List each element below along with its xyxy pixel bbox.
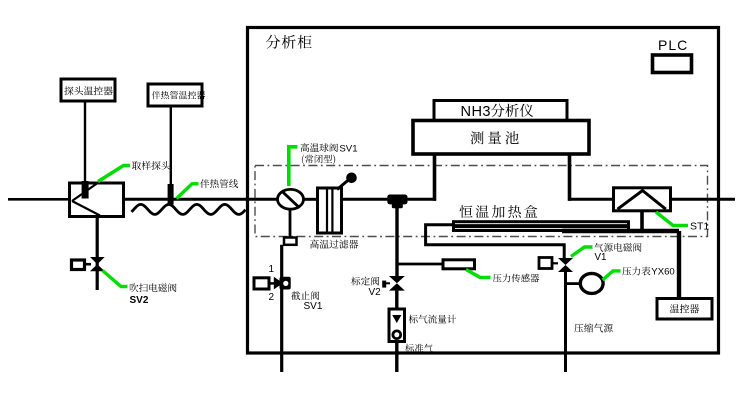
wire: probe controller to probe — [84, 101, 86, 183]
temperature controller box 温控器 — [657, 299, 712, 320]
label 温控器 — [670, 304, 699, 313]
wire: left leg up to measuring cell — [433, 153, 437, 201]
wire: tee to measuring cell left leg — [408, 198, 437, 201]
wire: pipe from heater to valve V1 — [426, 225, 565, 259]
V1 solenoid coil — [539, 258, 552, 269]
svg-text:YX60: YX60 — [651, 267, 674, 278]
analysis cabinet enclosure — [248, 28, 719, 354]
label 压力表 — [622, 267, 650, 276]
valve V2 (calibration valve) — [389, 276, 405, 291]
label 高温过滤器 — [310, 240, 358, 249]
wire: cabinet wall to ball valve — [248, 198, 279, 201]
wire: tee to pressure sensor — [397, 263, 444, 266]
measuring cell box 测量池 — [413, 121, 589, 155]
V2 stem handle — [385, 282, 390, 284]
SV2 solenoid coil — [72, 260, 85, 270]
callout 伴热管线 — [177, 184, 199, 199]
valve SV2 (purge solenoid valve) — [90, 257, 105, 271]
svg-text:NH3: NH3 — [461, 104, 491, 120]
ST1 sample cooler box — [614, 188, 671, 211]
wire: down through shutoff valve to bottom — [280, 245, 283, 372]
heater element of constant-temp heating box — [454, 222, 629, 231]
label 截止阀 — [291, 291, 319, 300]
wire: trace-heating controller down to heated line — [170, 106, 172, 188]
heated sample line (wavy) — [132, 204, 246, 214]
PLC box — [653, 55, 692, 73]
shutoff valve 截止阀 SV1 (3-way) — [274, 277, 283, 290]
wire: main sample line from flue (left) — [8, 198, 70, 201]
standard gas flowmeter — [389, 309, 405, 342]
high-temp filter — [318, 188, 342, 233]
wire: measuring cell right leg down — [568, 153, 572, 201]
tee fitting (solid) — [387, 195, 407, 205]
wire: filter to tee — [342, 198, 389, 201]
filter handle — [337, 180, 349, 190]
callout 气源电磁阀 V1 — [571, 247, 593, 257]
callout 取样探头 — [98, 166, 130, 182]
wire: ST1 bottom stub — [640, 211, 644, 231]
svg-text:1: 1 — [269, 264, 275, 275]
wire: probe box to cabinet — [124, 198, 248, 201]
label 压缩气源 — [574, 323, 613, 332]
wire: V2 to flowmeter — [395, 291, 398, 310]
ball valve SV1 (circle with diagonal) — [278, 189, 304, 209]
label 分析柜 — [266, 35, 312, 49]
label 探头温控器 (probe temp controller) box — [64, 86, 113, 95]
label 测量池 — [471, 131, 519, 144]
svg-text:ST1: ST1 — [690, 221, 709, 233]
shutoff valve solenoid coil — [254, 278, 269, 289]
callout 高温球阀SV1 — [289, 147, 298, 186]
label 标准气 — [405, 344, 433, 353]
NH3 analyzer box — [434, 101, 567, 121]
svg-text:SV2: SV2 — [130, 295, 149, 306]
svg-text:SV1: SV1 — [339, 143, 357, 154]
heated zone boundary (dash-dot) — [255, 166, 708, 237]
label 压力传感器 — [493, 274, 540, 283]
label 气源电磁阀 — [594, 243, 641, 252]
callout 吹扫电磁阀 SV2 — [103, 271, 128, 287]
valve V1 (air supply solenoid) — [558, 258, 573, 272]
label 伴热管线 — [200, 179, 238, 188]
label （常闭型） — [302, 155, 335, 165]
label 分析仪 (in NH3 box) — [491, 104, 533, 117]
svg-text:V2: V2 — [369, 287, 382, 298]
label 吹扫电磁阀 — [130, 283, 177, 292]
wire: flowmeter down through cabinet bottom — [395, 342, 398, 373]
callout 压力传感器 — [466, 270, 491, 278]
pressure sensor — [443, 260, 475, 269]
wire: purge branch down from probe — [96, 217, 99, 291]
callout 压力表YX60 — [603, 271, 621, 280]
sampling probe box — [70, 183, 124, 217]
svg-text:SV1: SV1 — [304, 301, 323, 312]
wire: ST1 outlet to right — [671, 198, 736, 201]
wire: V1 down to bottom — [564, 272, 567, 372]
wire: right leg to ST1 — [568, 198, 614, 201]
callout ST1 — [656, 212, 688, 225]
svg-text:V1: V1 — [595, 252, 607, 263]
label 标定阀 — [351, 277, 379, 286]
wire: ball valve stem down — [289, 209, 292, 238]
wire: heater outlet bar to temp controller — [562, 229, 679, 234]
ball valve actuator block — [284, 238, 297, 245]
pressure gauge YX60 — [566, 282, 582, 285]
probe temp controller box — [61, 79, 115, 101]
trace heating sensor tip — [168, 184, 174, 205]
label 恒温加热盒 — [460, 205, 538, 218]
label 取样探头 — [132, 161, 170, 170]
label 高温球阀 — [301, 143, 338, 152]
probe temperature sensor tip — [82, 181, 89, 199]
label 伴热管温控器 (trace-heating controller) box — [152, 91, 206, 99]
trace heating controller box — [148, 84, 202, 106]
wire: ball valve to filter — [304, 198, 319, 201]
label 标气流量计 — [409, 315, 457, 324]
svg-text:PLC: PLC — [658, 37, 688, 53]
svg-text:2: 2 — [269, 292, 275, 303]
wire: tee down to valve V2 — [395, 207, 398, 277]
